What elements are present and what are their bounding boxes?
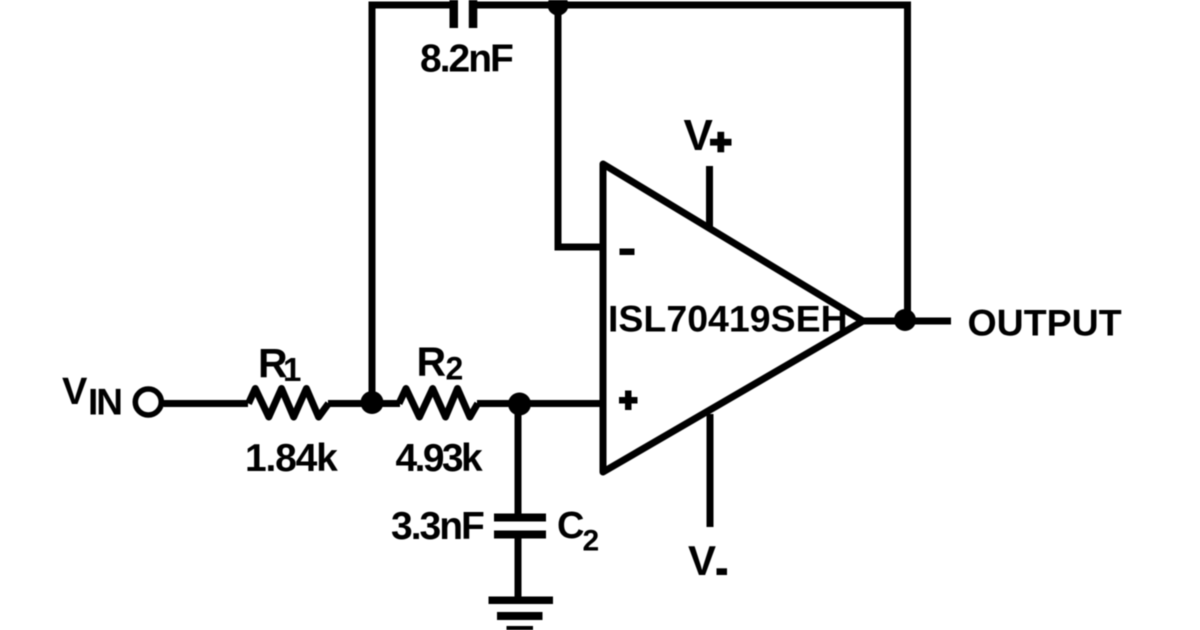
- node output junction dot: [894, 309, 916, 331]
- svg-text:8.2nF: 8.2nF: [420, 38, 513, 81]
- wire node down to C2: [515, 404, 522, 516]
- wire feedback vertical to inverting input: [555, 5, 562, 247]
- V+ supply lead: [706, 166, 713, 227]
- svg-text:R: R: [417, 339, 447, 385]
- svg-text:4.93k: 4.93k: [396, 437, 484, 480]
- wire left vertical feedback (C1 to R1/R2 node): [369, 5, 376, 402]
- wire VIN to R1: [164, 400, 249, 407]
- op-amp non-inverting input plus sign: [619, 397, 638, 404]
- svg-text:1: 1: [283, 351, 301, 388]
- node junction dot C2 tap: [508, 393, 531, 416]
- wire right vertical (top wire down to output): [904, 5, 911, 320]
- svg-text:ISL70419SEH: ISL70419SEH: [608, 298, 848, 340]
- svg-text:V: V: [684, 111, 714, 160]
- resistor R2 zigzag: [399, 389, 478, 418]
- wire top-right horizontal segment: [476, 2, 911, 9]
- node junction dot top feedback: [548, 0, 569, 16]
- wire R1 to R2: [328, 400, 400, 407]
- svg-text:3.3nF: 3.3nF: [391, 505, 484, 548]
- VIN terminal circle: [135, 389, 161, 415]
- wire top-left horizontal segment: [369, 2, 452, 9]
- wire R2 to op-amp plus input: [477, 400, 606, 407]
- op-amp inverting input minus sign: [620, 249, 635, 256]
- node junction dot R1/R2: [361, 391, 384, 414]
- svg-text:V: V: [62, 371, 88, 413]
- svg-text:V: V: [688, 537, 716, 584]
- svg-text:2: 2: [583, 525, 600, 558]
- output wire from apex: [860, 318, 951, 325]
- capacitor C1 plate left: [450, 0, 459, 28]
- op-amp U1 triangle: [603, 164, 863, 472]
- capacitor C2 plate top: [494, 514, 546, 522]
- capacitor C2 plate bottom: [494, 531, 546, 539]
- svg-text:2: 2: [446, 351, 464, 387]
- resistor R1 zigzag: [249, 389, 329, 418]
- svg-text:OUTPUT: OUTPUT: [968, 302, 1122, 344]
- capacitor C1 plate right: [469, 0, 478, 28]
- V- supply lead: [707, 414, 714, 527]
- svg-text:1.84k: 1.84k: [245, 437, 338, 480]
- svg-text:IN: IN: [88, 382, 121, 423]
- wire feedback horizontal to inverting input: [555, 244, 607, 251]
- wire C2 to ground: [515, 538, 522, 600]
- ground symbol: [489, 597, 554, 605]
- svg-text:C: C: [557, 505, 584, 547]
